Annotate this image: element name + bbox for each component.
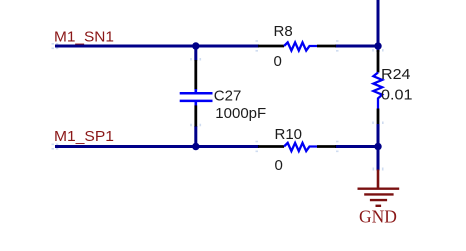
svg-text:GND: GND bbox=[359, 207, 397, 227]
junction node C (bottom wire / C27) bbox=[192, 143, 199, 150]
junction node B (top wire / R24 / vertical) bbox=[374, 42, 381, 49]
wire net M1_SN1 left segment bbox=[55, 45, 259, 48]
junction node D (bottom wire / R24 / GND) bbox=[374, 143, 381, 150]
resistor R8 bbox=[256, 23, 339, 70]
svg-text:M1_SN1: M1_SN1 bbox=[54, 28, 114, 45]
wire net M1_SP1 left segment bbox=[55, 145, 259, 148]
hotspot marker at wire start M1_SN1 bbox=[52, 44, 59, 49]
svg-text:M1_SP1: M1_SP1 bbox=[54, 128, 114, 145]
hotspot marker at wire start M1_SP1 bbox=[52, 144, 59, 149]
wire net M1_SN1 right segment bbox=[335, 45, 380, 48]
wire vertical to top edge bbox=[377, 0, 380, 48]
wire stub C27 top bbox=[194, 44, 197, 61]
power port GND bbox=[358, 168, 400, 227]
wire stub C27 bottom bbox=[194, 126, 197, 148]
junction node A (top wire / C27) bbox=[192, 42, 199, 49]
wire stub R24 bottom to GND bbox=[377, 124, 380, 171]
svg-text:C27: C27 bbox=[214, 87, 242, 104]
svg-text:0: 0 bbox=[275, 157, 283, 174]
svg-text:R24: R24 bbox=[381, 66, 411, 83]
wire stub R24 top bbox=[377, 44, 380, 52]
svg-text:1000pF: 1000pF bbox=[215, 105, 266, 122]
svg-text:0: 0 bbox=[274, 53, 282, 70]
wire net M1_SP1 right segment bbox=[335, 145, 380, 148]
svg-text:R10: R10 bbox=[275, 126, 303, 143]
capacitor C27 bbox=[180, 58, 266, 127]
svg-text:R8: R8 bbox=[274, 23, 293, 40]
resistor R24 bbox=[373, 49, 413, 124]
svg-text:0.01: 0.01 bbox=[381, 86, 413, 103]
resistor R10 bbox=[256, 126, 339, 174]
